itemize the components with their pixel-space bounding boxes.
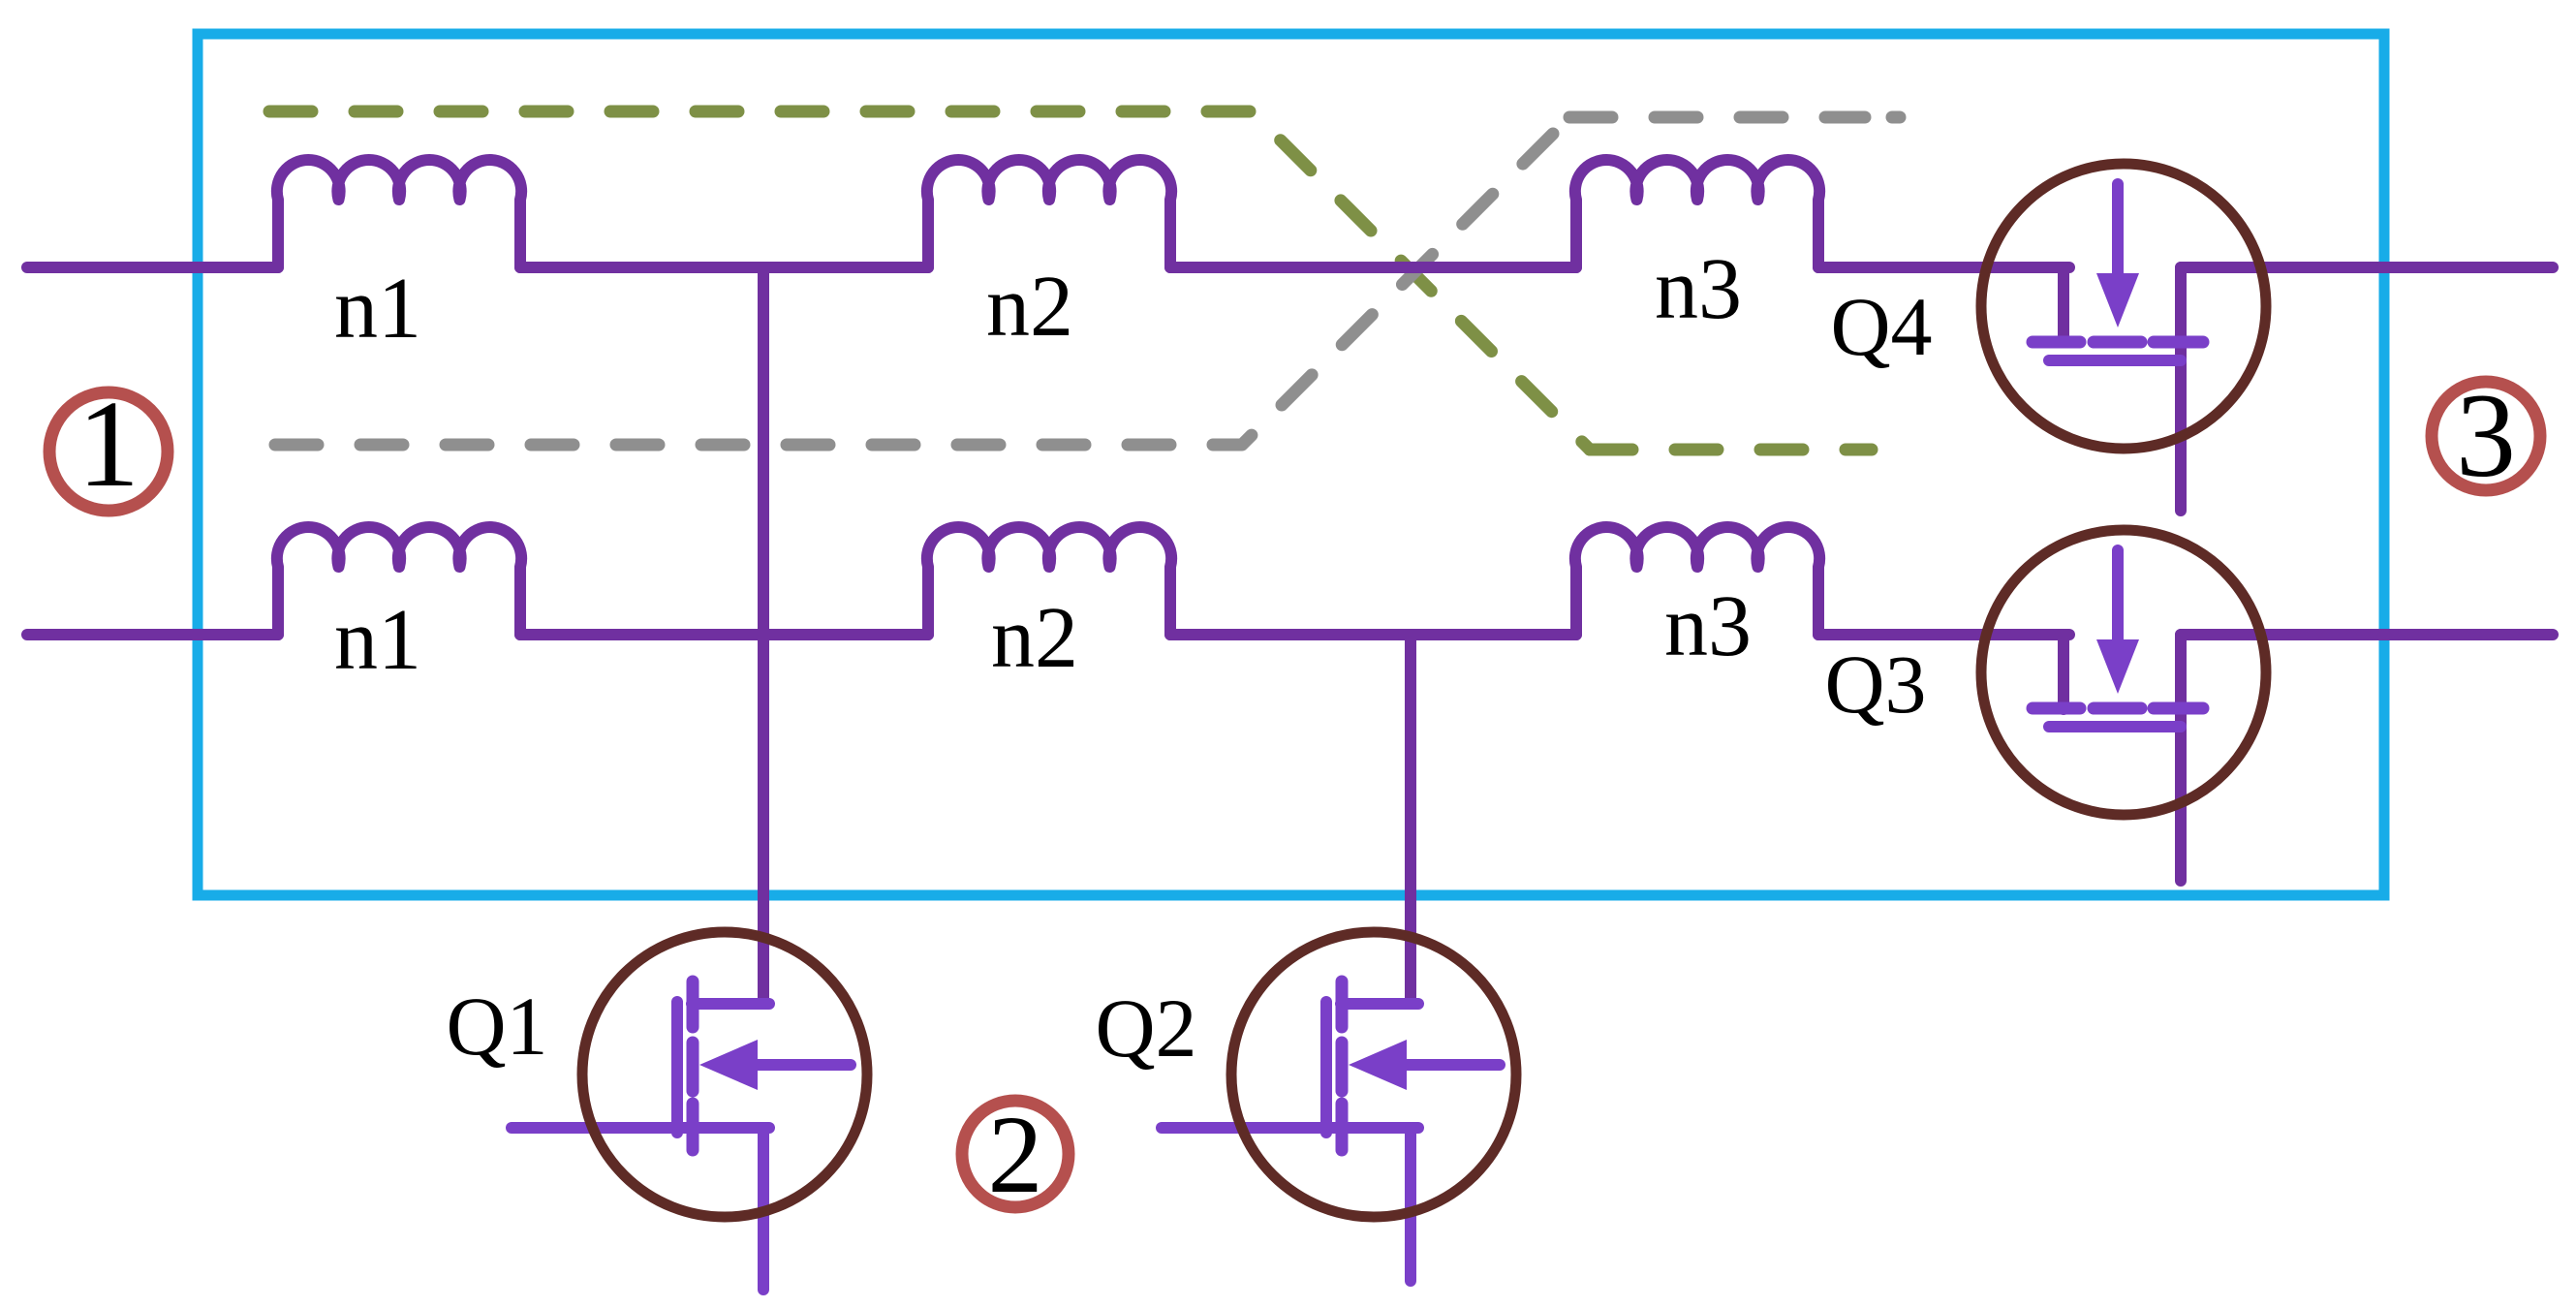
svg-text:n1: n1	[334, 261, 421, 357]
svg-text:Q1: Q1	[446, 980, 547, 1073]
svg-text:n2: n2	[991, 590, 1078, 686]
svg-text:Q2: Q2	[1095, 981, 1196, 1074]
svg-text:Q4: Q4	[1830, 280, 1932, 373]
svg-text:n3: n3	[1664, 578, 1752, 674]
svg-text:n1: n1	[334, 592, 421, 688]
svg-text:Q3: Q3	[1824, 638, 1926, 731]
svg-text:2: 2	[988, 1093, 1043, 1216]
svg-text:n3: n3	[1655, 241, 1742, 337]
svg-text:n2: n2	[986, 259, 1073, 355]
svg-text:3: 3	[2456, 369, 2516, 502]
svg-text:1: 1	[78, 375, 140, 513]
